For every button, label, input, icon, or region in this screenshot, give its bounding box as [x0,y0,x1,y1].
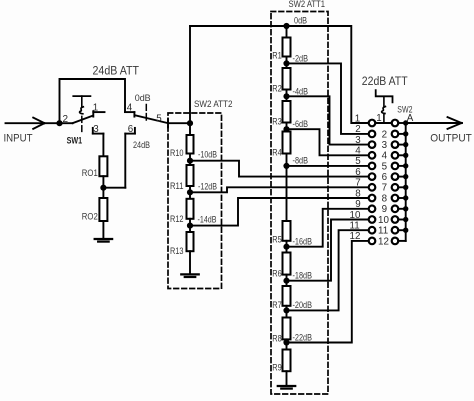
label position 12 [378,236,389,247]
label 0dB [294,16,307,26]
wire R3-R4 [286,123,288,132]
svg-text:6: 6 [382,172,388,183]
SW2 contact 1 left [369,120,376,127]
label 1 (SW1) [93,102,98,113]
svg-text:SW2 ATT1: SW2 ATT1 [289,0,326,10]
svg-text:2: 2 [382,129,387,140]
label -18dB [293,271,313,281]
svg-text:OUTPUT: OUTPUT [430,132,472,144]
wire SW2 closed position 1 [375,122,392,124]
svg-text:8: 8 [382,193,388,204]
svg-text:11: 11 [378,226,388,237]
ground (ATT2) [181,274,199,277]
wire R7-R8 [286,306,288,318]
label 4 [127,102,133,113]
svg-text:-2dB: -2dB [293,53,309,63]
svg-text:-16dB: -16dB [293,237,313,247]
svg-text:-14dB: -14dB [198,214,217,224]
label position 1 [376,113,381,124]
label SW2 ATT2 [194,99,233,110]
wire INPUT line [6,122,73,124]
svg-text:4: 4 [127,102,133,113]
resistor R7 [283,286,291,306]
resistor RO1 [99,156,107,176]
contact 4 of SW1 [125,112,134,117]
wire stub 10 to bus [398,219,406,221]
svg-text:R12: R12 [170,214,184,224]
svg-text:12: 12 [350,231,361,242]
wire R13 to ground [189,251,191,274]
wire 0dB to R1 [286,26,288,38]
label R6 [272,269,282,279]
wire R9 to ground [286,371,288,386]
node -16dB junction [284,244,289,249]
svg-text:22dB ATT: 22dB ATT [362,74,408,88]
node -18dB junction [284,278,289,283]
dashed box SW2 ATT2 [168,113,222,289]
wire OUTPUT line [406,122,462,124]
svg-text:24dB ATT: 24dB ATT [93,63,140,77]
SW2 contact 9 left [369,206,376,213]
wire stub 2 to bus [398,133,406,135]
resistor R5 [283,221,291,241]
label R5 [272,235,282,245]
resistor R8 [283,318,291,340]
svg-text:-18dB: -18dB [293,271,313,281]
wire stub 11 to bus [398,229,406,231]
label position 3 [382,140,388,151]
svg-text:R1: R1 [272,51,282,61]
label -12dB [198,181,217,191]
node -4dB junction [284,94,289,99]
SW2 contact 11 right [392,227,399,234]
wire tap -22dB to row12 [287,241,369,343]
node 2 junction [57,121,62,126]
svg-text:RO1: RO1 [82,168,98,178]
svg-text:9: 9 [355,199,360,210]
wire tap -4dB to row3 [287,96,369,144]
wire 24dB bypass top [60,79,126,123]
svg-text:-8dB: -8dB [293,155,309,165]
resistor R1 [283,38,291,57]
wire RO1 to junction [102,176,104,198]
wire tap -18dB to row10 [287,220,369,281]
svg-text:1: 1 [355,113,360,124]
wire stub 6 to bus [398,176,406,178]
svg-text:5: 5 [156,113,162,124]
label 0dB (position) [135,93,151,103]
wire R11-R12 + tap [189,186,191,199]
switch SW1 pole-b arm [135,115,167,123]
SW2 contact 12 right [392,238,399,245]
label position 4 [382,151,388,162]
label R12 [170,214,184,224]
label R1 [272,51,282,61]
label 5 [156,113,162,124]
wire tap -16dB to row9 [287,209,369,247]
node A junction [404,121,408,125]
label position 2 [382,129,387,140]
label position 5 [382,161,388,172]
label 3 [93,124,99,135]
resistor R6 [283,253,291,275]
SW2 contact 10 left [369,216,376,223]
SW2 contact 6 left [369,173,376,180]
label RO2 [82,212,98,222]
svg-text:R8: R8 [272,333,282,343]
wire stub 5 to bus [398,165,406,167]
SW2 wiper squiggle [382,107,386,114]
svg-text:R10: R10 [170,148,184,158]
node -2dB junction [284,61,289,66]
wire R10-R11 + tap [189,154,191,166]
wire stub 7 to bus [398,186,406,188]
label R2 [272,84,282,94]
label wire 5 [355,156,361,167]
wire contact3 to RO1 [102,134,104,157]
svg-text:SW2 ATT2: SW2 ATT2 [194,99,233,110]
wire tap -10dB to row6 [190,161,369,177]
SW1 wiper squiggle [80,107,84,114]
wire ATT2 riser to 0dB rail [190,26,287,123]
svg-text:24dB: 24dB [133,140,150,150]
svg-text:5: 5 [355,156,361,167]
label wire 12 [350,231,361,242]
label position 6 [382,172,388,183]
label -22dB [293,332,313,342]
wire stub 8 to bus [398,197,406,199]
resistor R2 [283,68,291,90]
wire stub 12 to bus [398,240,406,242]
svg-text:SW1: SW1 [67,136,83,146]
node -12dB junction [187,190,192,195]
label position 10 [378,215,389,226]
node -20dB junction [284,308,289,313]
wire tap -14dB to row8 [190,198,369,226]
wire R4 to R5 (long) [286,154,288,222]
svg-text:8: 8 [355,188,361,199]
svg-text:R9: R9 [272,363,282,373]
node 0dB [284,23,289,28]
svg-text:-22dB: -22dB [293,332,313,342]
label R13 [170,246,184,256]
switch SW1 pole-a arm [73,116,93,124]
svg-text:7: 7 [355,178,360,189]
contact 3 of SW1 [93,128,104,134]
label 24dB (position) [133,140,150,150]
wire contact5 to ATT2 [168,122,190,124]
svg-text:-10dB: -10dB [198,150,217,160]
wire tap -6dB to row4 [287,129,369,155]
svg-text:R5: R5 [272,235,282,245]
svg-text:11: 11 [350,221,360,232]
label -16dB [293,237,313,247]
svg-text:2: 2 [355,124,360,135]
wire row1 to output bus [398,122,406,124]
label wire 11 [350,221,360,232]
wire R12-R13 + tap [189,219,191,232]
SW1 mech dashed link [81,116,83,131]
input arrow [33,118,44,129]
node bus 2 [404,132,408,136]
SW2 contact 1 right [392,120,399,127]
svg-text:-12dB: -12dB [198,181,217,191]
wire ATT2 node to R10 [189,123,191,135]
label wire 7 [355,178,360,189]
SW2 contact 8 left [369,195,376,202]
node ATT2 top [187,121,192,126]
svg-text:R7: R7 [272,300,282,310]
node -14dB junction [187,223,192,228]
SW2 contact 3 left [369,141,376,148]
node -6dB junction [284,127,289,132]
svg-text:3: 3 [355,135,361,146]
ground (RO2) [95,239,113,242]
label -4dB [293,86,309,96]
SW2 contact 12 left [369,238,376,245]
wire tap -2dB to row2 [287,63,369,133]
label SW1 [67,136,83,146]
SW2 contact 7 right [392,184,399,191]
label -14dB [198,214,217,224]
node RO1/RO2 junction [101,185,106,190]
svg-text:3: 3 [382,140,388,151]
label 24dB ATT [93,63,140,77]
svg-text:R13: R13 [170,246,184,256]
SW2 contact 2 left [369,131,376,138]
svg-text:0dB: 0dB [294,16,307,26]
SW2 contact 10 right [392,216,399,223]
label -10dB [198,150,217,160]
SW2 contact 6 right [392,173,399,180]
label position 8 [382,193,388,204]
resistor R9 [283,350,291,372]
label OUTPUT [430,132,472,144]
node bus 6 [404,174,408,178]
svg-text:6: 6 [355,167,361,178]
SW2 contact 5 left [369,163,376,170]
node -8dB junction [284,163,289,168]
resistor R12 [187,199,194,219]
resistor R4 [283,132,291,154]
label position 7 [382,183,387,194]
label -2dB [293,53,309,63]
label wire 10 [350,210,361,221]
label INPUT [4,133,33,145]
wire tap -20dB to row11 [287,230,369,310]
label -20dB [293,300,313,310]
wire stub 9 to bus [398,208,406,210]
wire output bus [405,123,407,241]
label position 9 [382,204,387,215]
wire tap -8dB to row5 [287,165,369,167]
resistor R3 [283,101,291,123]
svg-text:10: 10 [350,210,361,221]
svg-text:7: 7 [382,183,387,194]
wire R2-R3 [286,90,288,102]
node bus 10 [404,217,408,221]
resistor R10 [187,135,194,154]
contact 6 of SW1 [125,128,135,134]
svg-text:5: 5 [382,161,388,172]
svg-text:-6dB: -6dB [293,119,309,129]
node bus 8 [404,196,408,200]
label position 11 [378,226,388,237]
SW2 contact 4 right [392,152,399,159]
label wire 1 [355,113,360,124]
svg-text:-4dB: -4dB [293,86,309,96]
label -6dB [293,119,309,129]
label R3 [272,117,282,127]
wire R8-R9 [286,339,288,349]
label wire 8 [355,188,361,199]
SW2 contact 2 right [392,131,399,138]
label wire 2 [355,124,360,135]
svg-text:9: 9 [382,204,387,215]
node bus 4 [404,153,408,157]
label R8 [272,333,282,343]
node bus 9 [404,207,408,211]
SW2 wiper stem [383,114,385,122]
label R7 [272,300,282,310]
SW2 contact 5 right [392,163,399,170]
svg-text:4: 4 [382,151,388,162]
label -8dB [293,155,309,165]
svg-text:R2: R2 [272,84,282,94]
SW2 contact 9 right [392,206,399,213]
label SW2 ATT1 [289,0,326,10]
resistor R11 [187,165,194,186]
label wire 9 [355,199,360,210]
node -10dB junction [187,158,192,163]
svg-text:R4: R4 [272,148,282,158]
SW2 contact 8 right [392,195,399,202]
SW2 actuator bracket [376,90,393,106]
label SW2 [397,105,412,115]
contact 1 of SW1 [93,111,104,116]
label R10 [170,148,184,158]
node -22dB junction [284,340,289,345]
contact 5 of SW1 [167,119,169,127]
output arrow [448,117,462,129]
label 22dB ATT [362,74,408,88]
svg-text:12: 12 [378,236,389,247]
SW2 contact 4 left [369,152,376,159]
label 2 [63,114,69,125]
ground (ATT1) [278,386,296,389]
label R11 [170,181,184,191]
svg-text:6: 6 [128,124,134,135]
label RO1 [82,168,98,178]
wire junction to contact6 [103,134,125,188]
svg-text:-20dB: -20dB [293,300,313,310]
SW2 contact 11 left [369,227,376,234]
wire stub 4 to bus [398,154,406,156]
label R9 [272,363,282,373]
svg-text:INPUT: INPUT [4,133,33,145]
label wire 3 [355,135,361,146]
node bus 5 [404,164,408,168]
svg-text:RO2: RO2 [82,212,98,222]
svg-text:3: 3 [93,124,99,135]
label wire 4 [355,146,361,157]
label R4 [272,148,282,158]
wire R6-R7 [286,275,288,286]
wire tap -12dB to row7 [190,187,369,192]
svg-text:R11: R11 [170,181,184,191]
svg-text:1: 1 [93,102,98,113]
label A [407,113,414,124]
SW1b mech dashed link [145,105,147,121]
label wire 6 [355,167,361,178]
svg-text:R3: R3 [272,117,282,127]
svg-text:0dB: 0dB [135,93,151,103]
wire stub 3 to bus [398,144,406,146]
node bus 11 [404,228,408,232]
SW2 contact 3 right [392,141,399,148]
svg-text:2: 2 [63,114,69,125]
resistor RO2 [99,198,107,221]
SW1 actuator bar [73,96,90,106]
dashed box SW2 ATT1 [271,12,328,395]
wire 0dB rail to row1 [287,26,369,123]
svg-text:4: 4 [355,146,361,157]
resistor R13 [187,232,194,251]
SW2 contact 7 left [369,184,376,191]
wire R1-R2 [286,57,288,69]
wire R5-R6 [286,241,288,253]
svg-text:10: 10 [378,215,389,226]
label 6 [128,124,134,135]
node bus 3 [404,142,408,146]
svg-text:R6: R6 [272,269,282,279]
node bus 7 [404,185,408,189]
wire RO2 to ground [102,221,104,239]
